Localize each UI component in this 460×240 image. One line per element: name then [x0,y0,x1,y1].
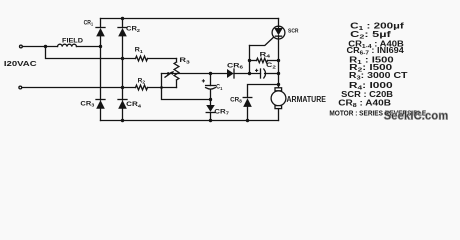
svg-text:I20VAC: I20VAC [4,59,37,68]
svg-text:FIELD: FIELD [62,37,83,44]
svg-text:ARMATURE: ARMATURE [287,95,326,104]
svg-text:SeekIC.com: SeekIC.com [384,109,449,123]
svg-text:SCR: SCR [288,28,299,34]
